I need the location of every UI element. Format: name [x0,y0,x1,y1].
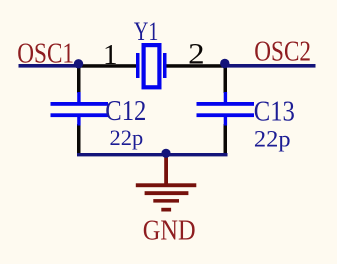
crystal Y1 [136,45,167,87]
wire OSC1 net (left horizontal, navy) [19,64,80,68]
capacitor C13 top stub [224,92,227,103]
wire C12 bottom lead (black vertical) [77,124,81,154]
svg-text:1: 1 [103,39,118,71]
crystal Y1 body rect [144,45,160,87]
capacitor C12 top plate [51,102,109,106]
capacitor C13 bottom stub [224,117,227,126]
wire pin1 lead (black) [78,64,137,68]
crystal Y1 right plate [163,53,167,78]
ground lead [164,155,168,184]
wire C13 bottom lead (black vertical) [224,124,228,154]
svg-text:2: 2 [188,37,204,70]
node junction left (OSC1/C12) [74,59,83,68]
ground bar 2 [145,191,189,195]
wire pin2 lead (black) [167,64,226,68]
node junction right (OSC2/C13) [220,59,229,68]
capacitor C12 bottom stub [77,117,80,126]
wire C13 top lead (black vertical) [224,66,228,93]
svg-text:22p: 22p [254,127,291,152]
svg-text:C12: C12 [105,94,146,126]
capacitor C12 top stub [77,92,80,103]
svg-text:Y1: Y1 [134,17,158,46]
ground bar 1 [136,183,197,187]
capacitor C12 [51,92,109,126]
svg-text:OSC1: OSC1 [17,37,74,69]
svg-text:GND: GND [143,214,196,246]
ground [136,155,197,212]
capacitor C13 top plate [197,102,255,106]
svg-text:OSC2: OSC2 [254,35,311,67]
capacitor C13 [197,92,255,126]
ground bar 4 [161,208,171,212]
wire bottom net (navy horizontal) [77,153,228,156]
wire C12 top lead (black vertical) [77,66,81,93]
svg-text:C13: C13 [254,95,295,127]
ground bar 3 [153,199,179,203]
wire OSC2 net (right horizontal, navy) [225,64,316,68]
node junction bottom (GND) [161,149,170,158]
capacitor C12 bottom plate [51,113,109,117]
crystal Y1 left plate [136,53,140,78]
svg-text:22p: 22p [110,125,144,150]
capacitor C13 bottom plate [197,113,255,117]
